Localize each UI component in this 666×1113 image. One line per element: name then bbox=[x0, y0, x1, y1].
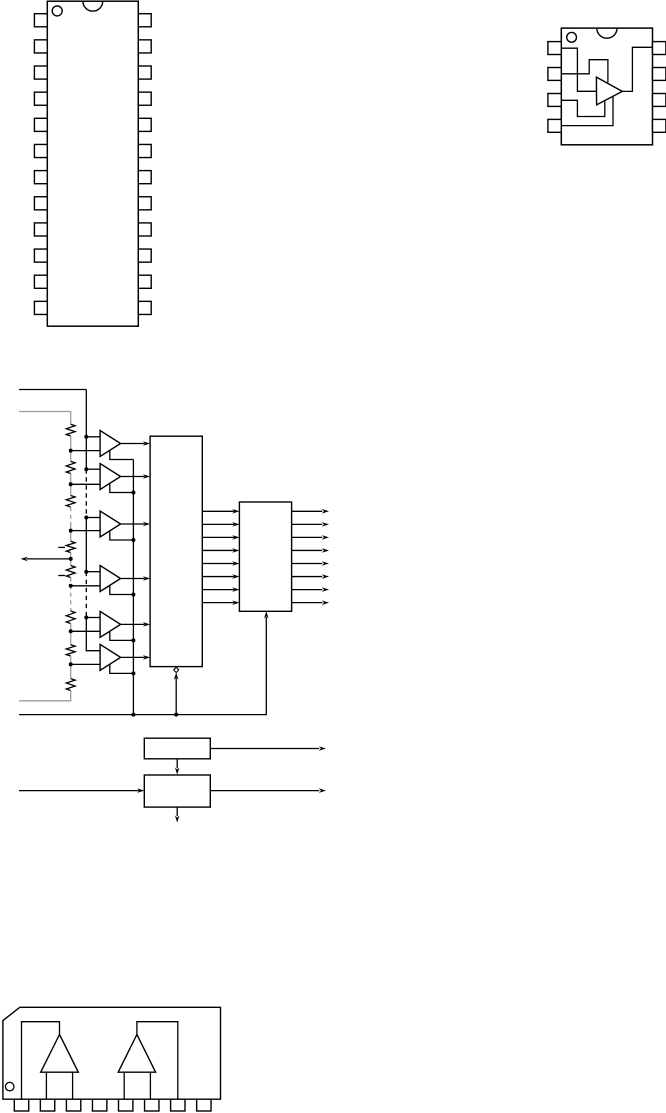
wire comparator A3 latch tap to clock bus bbox=[110, 531, 134, 540]
U2 pin 8 (right) bbox=[653, 42, 666, 55]
wire U6 output down bbox=[176, 807, 178, 816]
IC package U1 DIP-24 body outline bbox=[47, 1, 138, 326]
wire U5 to U6 (vertical arrow) bbox=[176, 759, 178, 768]
block U5 upper small box (reference/bias) bbox=[144, 738, 210, 759]
U2 pin-1 index notch (top semicircle) bbox=[597, 28, 617, 38]
U1 pin 3 (left) bbox=[34, 66, 47, 79]
U7 pin 1 bbox=[14, 1099, 28, 1111]
U1 pin 12 (left) bbox=[34, 301, 47, 314]
U1 pin 11 (left) bbox=[34, 275, 47, 288]
wire comparator A2 latch tap to clock bus bbox=[110, 483, 134, 492]
resistor R8 (ladder bottom) bbox=[66, 679, 75, 691]
arrowhead comparator A6 output bbox=[143, 655, 150, 660]
U1 pin 6 (left) bbox=[34, 144, 47, 157]
arrowhead U5 output bbox=[319, 746, 326, 751]
net REFT reference top rail (gray) bbox=[19, 412, 71, 425]
U2 wire pin2 loop over op-amp to top edge bbox=[561, 60, 608, 83]
wire data output bit D6 bbox=[292, 523, 323, 525]
U7 pin 5 bbox=[119, 1099, 133, 1111]
U7 pin 3 bbox=[66, 1099, 80, 1111]
wire encoder output bit 2 to latch bbox=[202, 536, 234, 538]
wire encoder output bit 5 to latch bbox=[202, 576, 234, 578]
comparator A6 (triangle) bbox=[100, 644, 121, 670]
wire VIN tap to comparator 2 upper input bbox=[86, 468, 100, 470]
U7 pin 4 bbox=[92, 1099, 106, 1111]
U2 pin 7 (right) bbox=[653, 68, 666, 81]
arrowhead U6 output down bbox=[175, 815, 180, 822]
wire ladder tap to comparator 5 lower input bbox=[71, 630, 100, 632]
wire ladder segment R7-R8 (gray) bbox=[70, 656, 72, 679]
wire data output bit D2 bbox=[292, 576, 323, 578]
arrowhead comparator A4 output bbox=[143, 576, 150, 581]
wire VIN rail solid segment 2 bbox=[85, 518, 87, 572]
U1 pin 18 (right) bbox=[138, 171, 151, 184]
wire encoder output bit 3 to latch bbox=[202, 549, 234, 551]
resistor R1 (ladder top) bbox=[66, 424, 75, 436]
U1 pin 16 (right) bbox=[138, 223, 151, 236]
junction dot VIN rail at comparator 4 bbox=[84, 570, 88, 574]
U1 pin 13 (right) bbox=[138, 301, 151, 314]
U1 pin 19 (right) bbox=[138, 144, 151, 157]
arrowhead encoder bit 3 bbox=[232, 548, 239, 553]
junction dot ladder tap 4 bbox=[69, 584, 73, 588]
junction dot CLK rail at encoder branch bbox=[174, 713, 178, 717]
U2 wire pin4 to op-amp bottom edge bbox=[561, 97, 613, 126]
arrowhead U5 to U6 bbox=[175, 767, 180, 774]
U1 pin 21 (right) bbox=[138, 92, 151, 105]
U1 pin 8 (left) bbox=[34, 197, 47, 210]
arrowhead input into U6 bbox=[137, 788, 144, 793]
U2 pin 2 (left) bbox=[548, 68, 561, 81]
resistor R7 bbox=[66, 645, 75, 656]
wire comparator A2 output to encoder bbox=[121, 476, 145, 478]
junction dot clock bus at A2 bbox=[131, 491, 135, 495]
wire data output bit D4 bbox=[292, 549, 323, 551]
U1 pin 22 (right) bbox=[138, 66, 151, 79]
wire VIN tap to comparator 3 upper input bbox=[86, 517, 100, 519]
wire comparator A3 output to encoder bbox=[121, 523, 145, 525]
arrowhead comparator A2 output bbox=[143, 474, 150, 479]
wire comparator A1 output to encoder bbox=[121, 443, 145, 445]
junction dot VIN rail at comparator 2 bbox=[84, 467, 88, 471]
U2 pin 3 (left) bbox=[548, 94, 561, 107]
wire ladder segment R4-R5 (gray) bbox=[70, 553, 72, 566]
wire data output bit D3 bbox=[292, 563, 323, 565]
arrowhead CLK into latch bbox=[264, 611, 269, 618]
IC package U7 SIP-8 body outline (chamfered corner) bbox=[3, 1007, 221, 1099]
comparator A1 (triangle) bbox=[100, 431, 121, 457]
wire data output bit D0 bbox=[292, 602, 323, 604]
wire ladder tap to comparator 3 lower input bbox=[71, 530, 100, 532]
comparator A3 (triangle) bbox=[100, 511, 121, 537]
junction dot CLK rail at comparator bus bbox=[131, 713, 135, 717]
wire VIN rail solid segment 3 to comparator 6 input bbox=[86, 618, 100, 651]
junction dot clock bus at A5 bbox=[131, 638, 135, 642]
junction dot VIN rail at comparator 3 bbox=[84, 516, 88, 520]
wire U6 output right bbox=[210, 790, 319, 792]
block U6 lower small box (timing/control) bbox=[144, 775, 210, 807]
resistor R2 bbox=[66, 461, 75, 473]
amplifier B1 inside U7 (triangle up) bbox=[41, 1035, 79, 1073]
wire ladder segment tap3 (gray) bbox=[70, 522, 72, 541]
value tick mark at R4 bbox=[58, 546, 65, 548]
U1 pin 20 (right) bbox=[138, 118, 151, 131]
net VIN analog input top rail bbox=[19, 389, 86, 391]
U1 pin 24 (right) bbox=[138, 14, 151, 27]
wire ladder segment R1-tap1 (gray) bbox=[70, 436, 72, 461]
wire input into U6 from left bbox=[19, 790, 139, 792]
amplifier B2 inside U7 (triangle up) bbox=[118, 1035, 155, 1073]
wire ladder segment to R6 (gray) bbox=[70, 608, 72, 611]
arrowhead data output bit D2 bbox=[322, 574, 329, 579]
wire data output bit D5 bbox=[292, 536, 323, 538]
comparator A4 (triangle) bbox=[100, 566, 121, 592]
junction dot VIN rail at comparator 1 bbox=[84, 435, 88, 439]
U7 wire amp B2 input to pin 5 bbox=[123, 1072, 125, 1099]
U1 pin 15 (right) bbox=[138, 249, 151, 262]
arrowhead encoder bit 1 bbox=[232, 522, 239, 527]
arrowhead data output bit D3 bbox=[322, 561, 329, 566]
wire data output bit D7 bbox=[292, 510, 323, 512]
wire VIN vertical rail (solid segment 1) bbox=[85, 390, 87, 470]
junction dot ladder tap 2 bbox=[69, 482, 73, 486]
block U3 encoder box bbox=[150, 436, 202, 666]
wire comparator A4 latch tap to clock bus bbox=[110, 585, 134, 594]
wire VIN tap to comparator 1 upper input bbox=[86, 436, 100, 438]
junction dot clock bus at A4 bbox=[131, 593, 135, 597]
wire comparator A6 latch tap to clock bus bbox=[110, 664, 134, 673]
U1 pin 5 (left) bbox=[34, 118, 47, 131]
arrowhead encoder bit 4 bbox=[232, 561, 239, 566]
wire ladder segment R6-R7 (gray) bbox=[70, 624, 72, 645]
U1 pin 4 (left) bbox=[34, 92, 47, 105]
U1 pin-1 index dot (circle marker) bbox=[52, 6, 62, 16]
arrowhead U6 output bbox=[319, 788, 326, 793]
arrowhead data output bit D6 bbox=[322, 522, 329, 527]
wire data output bit D1 bbox=[292, 589, 323, 591]
arrowhead data output bit D4 bbox=[322, 548, 329, 553]
wire VIN tap to comparator 5 upper input bbox=[86, 617, 100, 619]
U7 pin 2 bbox=[40, 1099, 54, 1111]
U1 pin 2 (left) bbox=[34, 40, 47, 53]
arrowhead encoder bit 5 bbox=[232, 574, 239, 579]
U2 wire op-amp output to pin 8 bbox=[622, 47, 652, 91]
wire ladder tap to comparator 4 lower input bbox=[71, 585, 100, 587]
block U4 output latch box bbox=[239, 502, 291, 611]
U7 wire amp B2 output rail to pin 7 bbox=[137, 1022, 178, 1099]
wire ladder segment R2-tap2 (gray) bbox=[70, 474, 72, 496]
value tick mark at R5 bbox=[58, 575, 65, 577]
U7 wire amp B1 output rail to pin 1 bbox=[22, 1022, 60, 1099]
U1 pin 7 (left) bbox=[34, 171, 47, 184]
wire comparator A5 output to encoder bbox=[121, 623, 145, 625]
wire CLK branch to encoder (inverted) bbox=[175, 678, 177, 714]
wire encoder output bit 6 to latch bbox=[202, 589, 234, 591]
U2 wire pin3 under op-amp to bottom edge bbox=[561, 100, 605, 116]
wire ladder tap to comparator 6 lower input bbox=[71, 663, 100, 665]
wire U5 output right bbox=[210, 748, 319, 750]
U1 pin 10 (left) bbox=[34, 249, 47, 262]
arrowhead data output bit D7 bbox=[322, 509, 329, 514]
resistor R3 bbox=[66, 496, 75, 508]
wire ladder dashed continuation 2 (gray) bbox=[70, 578, 72, 609]
U7 pin 6 bbox=[145, 1099, 159, 1111]
arrowhead comparator A1 output bbox=[143, 441, 150, 446]
U1 pin 1 (left) bbox=[34, 14, 47, 27]
U7 wire amp B2 input to pin 6 bbox=[149, 1072, 151, 1099]
arrowhead data output bit D5 bbox=[322, 535, 329, 540]
U7 wire amp B1 input to pin 2 bbox=[45, 1072, 47, 1099]
arrowhead mid-reference output bbox=[21, 557, 28, 562]
U1 pin 23 (right) bbox=[138, 40, 151, 53]
U7 pin 8 bbox=[197, 1099, 211, 1111]
junction dot ladder tap 5 bbox=[69, 629, 73, 633]
U1 pin 9 (left) bbox=[34, 223, 47, 236]
wire encoder output bit 7 to latch bbox=[202, 602, 234, 604]
wire encoder output bit 1 to latch bbox=[202, 523, 234, 525]
U7 pin 7 bbox=[171, 1099, 185, 1111]
wire comparator A5 latch tap to clock bus bbox=[110, 631, 134, 640]
wire ladder tap to comparator 2 lower input bbox=[71, 483, 100, 485]
op-amp A1 inside U2 (triangle) bbox=[596, 77, 622, 105]
wire VIN rail dashed segment 2 bbox=[85, 572, 87, 618]
U2 pin 4 (left) bbox=[548, 119, 561, 132]
wire ladder dashed continuation (gray) bbox=[70, 507, 72, 522]
wire comparator A4 output to encoder bbox=[121, 578, 145, 580]
comparator A2 (triangle) bbox=[100, 464, 121, 490]
net REFB reference bottom rail (gray) bbox=[19, 691, 71, 701]
U1 pin 14 (right) bbox=[138, 275, 151, 288]
wire comparator A6 output to encoder bbox=[121, 656, 145, 658]
wire comparator A1 latch tap to clock bus bbox=[110, 450, 134, 459]
U7 pin-1 index dot (circle marker) bbox=[5, 1082, 14, 1091]
junction dot ladder tap 1 bbox=[69, 449, 73, 453]
junction dot clock bus at A3 bbox=[131, 538, 135, 542]
arrowhead encoder bit 6 bbox=[232, 587, 239, 592]
wire VIN tap to comparator 4 upper input bbox=[86, 571, 100, 573]
arrowhead encoder bit 0 bbox=[232, 509, 239, 514]
wire comparator clock bus (vertical) bbox=[132, 460, 134, 715]
wire encoder output bit 0 to latch bbox=[202, 510, 234, 512]
junction dot mid-reference tap bbox=[69, 557, 73, 561]
U2 pin 1 (left) bbox=[548, 42, 561, 55]
arrowhead comparator A3 output bbox=[143, 522, 150, 527]
wire mid-reference output (left-pointing arrow) bbox=[27, 558, 71, 560]
U2 pin 6 (right) bbox=[653, 94, 666, 107]
junction dot VIN rail at comparator 5 bbox=[84, 616, 88, 620]
arrowhead encoder bit 7 bbox=[232, 600, 239, 605]
IC package U2 SOIC-8 body outline bbox=[561, 28, 652, 145]
U1 pin 17 (right) bbox=[138, 197, 151, 210]
resistor R5 bbox=[66, 566, 75, 578]
junction dot ladder tap 6 bbox=[69, 662, 73, 666]
arrowhead CLK into encoder bbox=[174, 673, 179, 680]
net CLK bottom rail bbox=[19, 617, 266, 715]
U2 pin-1 index dot (circle marker) bbox=[567, 32, 577, 42]
arrowhead data output bit D0 bbox=[322, 600, 329, 605]
inversion diamond at encoder clock input bbox=[174, 667, 179, 672]
wire encoder output bit 4 to latch bbox=[202, 563, 234, 565]
junction dot ladder tap 3 bbox=[69, 529, 73, 533]
comparator A5 (triangle) bbox=[100, 611, 121, 637]
arrowhead encoder bit 2 bbox=[232, 535, 239, 540]
wire ladder tap to comparator 1 lower input bbox=[71, 450, 100, 452]
resistor R6 bbox=[66, 611, 75, 624]
U1 pin-1 index notch (top semicircle) bbox=[83, 1, 103, 11]
junction dot clock bus at A6 bbox=[131, 671, 135, 675]
arrowhead comparator A5 output bbox=[143, 622, 150, 627]
resistor R4 bbox=[66, 541, 75, 552]
U2 pin 5 (right) bbox=[653, 119, 666, 132]
U2 wire pin1 to op-amp non-inverting input bbox=[561, 48, 596, 91]
wire VIN rail dashed segment (ladder continuation) bbox=[85, 469, 87, 517]
U7 wire amp B1 input to pin 3 bbox=[72, 1072, 74, 1099]
arrowhead data output bit D1 bbox=[322, 587, 329, 592]
